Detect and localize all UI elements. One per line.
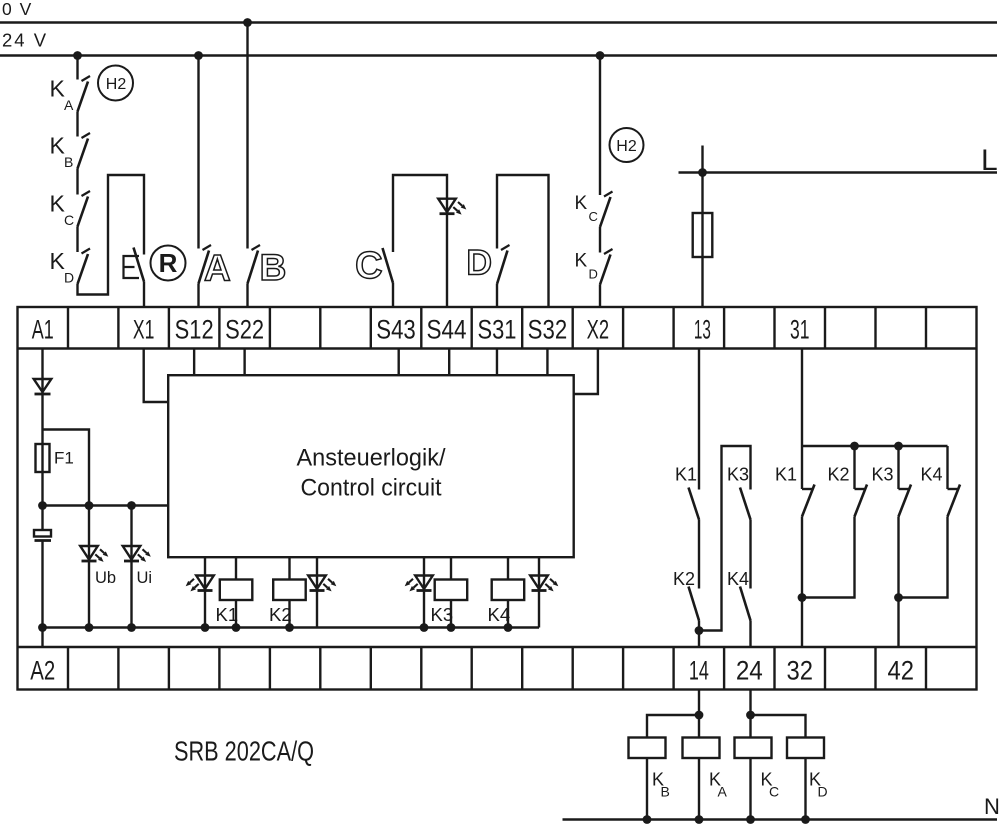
contact C xyxy=(383,248,394,283)
wire terminal X1 to logic xyxy=(144,348,169,403)
wire node to terminal 14 xyxy=(698,631,700,648)
rail dot Ub xyxy=(85,623,94,632)
svg-text:SRB 202CA/Q: SRB 202CA/Q xyxy=(174,736,314,767)
node dot KC on N xyxy=(746,815,755,824)
svg-text:A2: A2 xyxy=(30,656,55,686)
relay coil K3 xyxy=(450,557,452,579)
wire LED K4 to rail xyxy=(538,591,540,628)
wire Ui to rail xyxy=(130,561,132,628)
contact K4 nc xyxy=(948,488,959,490)
svg-text:S12: S12 xyxy=(175,314,214,344)
svg-text:K2: K2 xyxy=(269,604,292,625)
svg-text:Control circuit: Control circuit xyxy=(301,474,442,501)
terminal strip bottom row xyxy=(18,647,977,690)
wire 24V to right KC xyxy=(599,56,601,196)
wire 24 to KC coil xyxy=(749,715,751,738)
contact B xyxy=(252,245,261,250)
svg-text:Ansteuerlogik/: Ansteuerlogik/ xyxy=(297,445,446,472)
wire KC to N xyxy=(749,758,751,820)
wire K3-K4 xyxy=(749,520,751,589)
wire terminal X2 to logic xyxy=(574,348,598,395)
wire terminal S22 to logic xyxy=(243,349,245,376)
wire K1 nc to terminal 32 xyxy=(801,517,803,648)
terminal strip top row xyxy=(18,307,977,349)
wire K2 to node 14 xyxy=(698,621,700,631)
contact KC right xyxy=(604,192,613,197)
svg-text:S43: S43 xyxy=(376,314,416,344)
contact K1 nc xyxy=(802,488,813,490)
wire coil K3 to rail xyxy=(450,600,452,628)
node junction 0V to contact B xyxy=(243,18,252,27)
wire K2 nc join xyxy=(802,517,855,598)
svg-text:D: D xyxy=(466,243,492,283)
svg-text:L: L xyxy=(981,144,998,177)
svg-text:D: D xyxy=(818,784,828,800)
wire LED to terminal S44 xyxy=(446,214,448,307)
wire LED K3 to rail xyxy=(423,591,425,628)
svg-text:B: B xyxy=(260,247,287,288)
svg-text:S22: S22 xyxy=(225,314,264,344)
node junction L line xyxy=(698,168,707,177)
logic block U1 xyxy=(168,375,574,557)
svg-text:A1: A1 xyxy=(32,314,54,344)
contact D xyxy=(501,245,510,250)
wire A1 to diode xyxy=(41,349,43,380)
svg-text:K: K xyxy=(575,193,588,214)
svg-text:C: C xyxy=(769,784,779,800)
wire coil K4 to rail xyxy=(507,600,509,628)
enclosure outline xyxy=(18,307,977,690)
node dot 32 xyxy=(798,593,807,602)
svg-text:S32: S32 xyxy=(528,314,568,344)
bottom rail xyxy=(43,626,540,628)
wire branch to KD coil xyxy=(751,715,806,738)
svg-text:B: B xyxy=(661,784,670,800)
relay coil K2 xyxy=(288,557,290,579)
rail dot coil K3 xyxy=(447,623,456,632)
wire bypass branch xyxy=(43,430,90,506)
wire 0V to contact B xyxy=(246,23,248,249)
svg-text:S44: S44 xyxy=(426,314,466,344)
svg-text:C: C xyxy=(355,245,382,287)
net L rail xyxy=(679,171,998,173)
svg-text:14: 14 xyxy=(689,656,709,686)
wire LED K1 to rail xyxy=(204,591,206,628)
wire contact B to terminal S22 xyxy=(246,284,248,308)
relay coil KB xyxy=(629,738,666,759)
wire 24V to contact A xyxy=(197,56,199,249)
relay coil KA xyxy=(683,738,720,759)
lamp label H2 right xyxy=(610,128,644,162)
wire terminal S43 to logic xyxy=(398,349,400,376)
wire terminal S44 to logic xyxy=(448,349,450,376)
svg-text:Ub: Ub xyxy=(95,569,116,587)
fuse on L line xyxy=(693,213,713,257)
svg-text:X1: X1 xyxy=(133,314,155,344)
contact K4 no xyxy=(740,587,751,621)
svg-text:A: A xyxy=(204,247,231,288)
node junction 24V to KA chain xyxy=(73,51,82,60)
wire 14 to KA coil xyxy=(698,715,700,738)
wire drop K4 xyxy=(946,446,948,489)
wire terminal 14 down xyxy=(698,690,700,716)
wire KB to N xyxy=(646,758,648,820)
node line xyxy=(43,504,169,506)
rail dot Ui xyxy=(127,623,136,632)
wire distribution 31 xyxy=(802,445,948,447)
svg-text:H2: H2 xyxy=(106,76,127,93)
wire capacitor to rail xyxy=(41,542,43,628)
lamp label H2 left xyxy=(98,66,133,101)
wire drop K2 xyxy=(853,446,855,489)
svg-text:F1: F1 xyxy=(54,449,74,468)
LED Ui xyxy=(130,506,132,547)
svg-text:H2: H2 xyxy=(616,138,637,155)
contact KB xyxy=(82,133,91,138)
svg-text:Ui: Ui xyxy=(137,569,153,587)
svg-text:A: A xyxy=(64,97,74,113)
wire riser 14 node to contact K3 xyxy=(699,446,751,631)
wire K4 to terminal 24 xyxy=(749,621,751,648)
wire reset to terminal X1 xyxy=(143,282,145,308)
svg-text:13: 13 xyxy=(694,314,711,344)
net N rail xyxy=(563,818,998,820)
fuse F1 xyxy=(36,444,50,472)
svg-text:42: 42 xyxy=(887,656,914,686)
rail dot A1 column xyxy=(38,623,47,632)
svg-text:R: R xyxy=(159,248,178,278)
wire KD to N xyxy=(804,758,806,820)
wire terminal S31 to logic xyxy=(496,349,498,376)
svg-text:K1: K1 xyxy=(675,465,697,485)
svg-text:0 V: 0 V xyxy=(2,0,33,19)
relay coil K1 xyxy=(235,557,237,579)
wire coil K1 to rail xyxy=(235,600,237,628)
contact KC xyxy=(82,191,91,196)
contact KD right xyxy=(604,249,613,254)
wire contact A to terminal S12 xyxy=(197,284,199,308)
wire contact C to terminal S43 xyxy=(392,283,394,307)
contact K1 no xyxy=(689,488,700,520)
svg-text:31: 31 xyxy=(790,314,810,344)
svg-text:24 V: 24 V xyxy=(2,30,48,51)
node dot Ub branch xyxy=(85,501,94,510)
node junction 24V to right chain xyxy=(596,51,605,60)
svg-text:K2: K2 xyxy=(673,569,695,589)
svg-text:B: B xyxy=(64,154,73,170)
contact K3 no xyxy=(740,488,751,520)
node dot 24 branch xyxy=(746,711,755,720)
contact KD xyxy=(82,249,91,254)
wire loop S31 branch xyxy=(497,175,549,307)
svg-text:K1: K1 xyxy=(775,465,797,485)
wire loop S43 branch xyxy=(393,175,447,252)
wire terminal 24 down xyxy=(749,690,751,716)
svg-text:D: D xyxy=(589,267,598,282)
svg-text:K4: K4 xyxy=(727,569,749,589)
LED K3 indicator xyxy=(423,557,425,575)
svg-text:K1: K1 xyxy=(216,604,239,625)
wire KB-KC xyxy=(76,169,78,195)
contact K2 no xyxy=(689,587,700,621)
LED K1 indicator xyxy=(204,557,206,575)
rail dot LED K3 xyxy=(420,623,429,632)
node dot 14 xyxy=(695,626,704,635)
node dot A1 column xyxy=(38,501,47,510)
svg-text:32: 32 xyxy=(787,656,814,686)
wire KC-KD right xyxy=(599,227,601,253)
wire K1-K2 xyxy=(698,520,700,589)
node dot 42 xyxy=(894,593,903,602)
wire L to fuse xyxy=(701,146,703,308)
node dot 14 branch xyxy=(695,711,704,720)
wire branch to KB coil xyxy=(647,715,699,738)
node dot K3 drop xyxy=(894,442,903,451)
svg-text:D: D xyxy=(64,270,74,286)
wire KA-KB xyxy=(76,112,78,137)
LED K2 indicator xyxy=(316,557,318,575)
wire right chain to terminal X2 xyxy=(599,285,601,308)
wire terminal S12 to logic xyxy=(193,349,195,376)
svg-text:K3: K3 xyxy=(431,604,454,625)
wire coil K2 to rail xyxy=(288,600,290,628)
wire rail to terminal A2 xyxy=(41,628,43,648)
wire 24V to KA xyxy=(76,56,78,80)
svg-text:K3: K3 xyxy=(871,465,893,485)
capacitor C1 xyxy=(41,506,43,531)
relay coil KC xyxy=(735,738,772,759)
wire contact D to terminal S31 xyxy=(496,284,498,307)
node dot Ui branch xyxy=(127,501,136,510)
svg-text:K4: K4 xyxy=(920,465,942,485)
svg-text:X2: X2 xyxy=(587,314,610,344)
contact A xyxy=(203,245,212,250)
wire K4 nc join xyxy=(899,517,948,598)
svg-text:K: K xyxy=(575,251,588,272)
svg-text:K3: K3 xyxy=(727,465,749,485)
reset label R circle xyxy=(151,246,186,281)
svg-text:K2: K2 xyxy=(827,465,849,485)
wire diode to fuse F1 xyxy=(41,394,43,506)
wire KD chain to reset button xyxy=(78,175,145,295)
svg-text:K4: K4 xyxy=(488,604,511,625)
LED in S44 branch xyxy=(446,199,448,214)
node dot K2 drop xyxy=(850,442,859,451)
svg-text:C: C xyxy=(64,212,74,228)
wire KC-KD xyxy=(76,227,78,253)
svg-text:C: C xyxy=(589,209,598,224)
node dot KA on N xyxy=(695,815,704,824)
wire drop K3 xyxy=(897,446,899,489)
wire LED K2 to rail xyxy=(316,591,318,628)
wire terminal 31 to contact K1 nc xyxy=(801,349,803,490)
wire terminal 13 to contact K1 xyxy=(698,349,700,490)
LED K4 indicator xyxy=(538,557,540,575)
contact K2 nc xyxy=(855,488,866,490)
svg-text:24: 24 xyxy=(736,656,763,686)
reset button E actuator xyxy=(124,256,140,278)
svg-text:A: A xyxy=(718,784,728,800)
wire K3 nc to terminal 42 xyxy=(897,517,899,648)
contact KA xyxy=(82,76,91,81)
rail dot coil K2 xyxy=(285,623,294,632)
svg-text:S31: S31 xyxy=(477,314,516,344)
LED Ub xyxy=(88,506,90,547)
rail dot coil K1 xyxy=(232,623,241,632)
node dot KB on N xyxy=(643,815,652,824)
wire Ub to rail xyxy=(88,561,90,628)
rail dot coil K4 xyxy=(504,623,513,632)
diode V1 xyxy=(41,379,43,394)
wire KA to N xyxy=(698,758,700,820)
reset contact blade xyxy=(134,248,145,282)
rail dot LED K1 xyxy=(201,623,210,632)
relay coil KD xyxy=(787,738,824,759)
wire terminal S32 to logic xyxy=(546,349,548,376)
node dot KD on N xyxy=(801,815,810,824)
contact K3 nc xyxy=(899,488,910,490)
relay coil K4 xyxy=(507,557,509,579)
node junction 24V to contact A xyxy=(194,51,203,60)
svg-text:N: N xyxy=(984,794,1000,819)
